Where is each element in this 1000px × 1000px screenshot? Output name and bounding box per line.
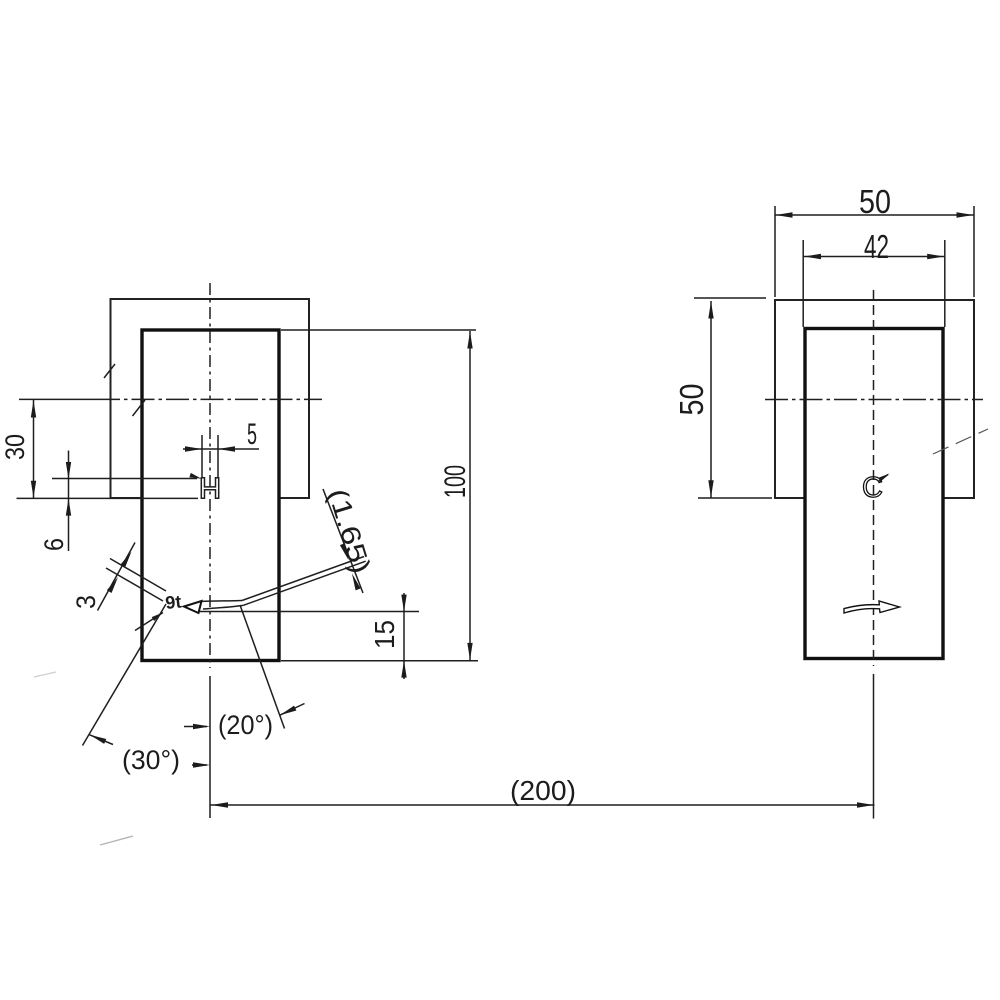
inner block rectangle thick (left view)	[142, 330, 279, 661]
hook curved tip inner edge	[203, 605, 244, 609]
svg-text:15: 15	[369, 620, 400, 649]
dimension 15 line	[403, 593, 405, 679]
dimension 100 line	[469, 331, 471, 660]
dimension 50 top line	[775, 214, 974, 216]
svg-text:9t: 9t	[164, 591, 182, 613]
faint phantom diagonal line top right	[933, 429, 988, 454]
dimension 3 edge line B	[106, 568, 163, 601]
hook bottom extension line y=611.5	[197, 611, 419, 613]
outer housing rectangle (right view)	[775, 300, 974, 498]
H profile slot feature	[201, 478, 218, 499]
dimension 30 line	[33, 400, 35, 498]
svg-text:(200): (200)	[510, 775, 576, 806]
faint pencil mark mid left	[34, 672, 56, 677]
C leader arrow	[879, 475, 888, 482]
svg-text:(20°): (20°)	[218, 710, 273, 740]
spring strip lower line	[244, 561, 366, 605]
hook open arrowhead tip	[184, 601, 202, 613]
vertical centerline (left view)	[209, 283, 211, 668]
extension line y=478.5 with leader arrow to H profile	[52, 478, 197, 480]
svg-text:42: 42	[864, 228, 889, 265]
svg-text:3: 3	[71, 595, 101, 609]
20 degree centerline arrow	[184, 726, 207, 728]
hook curved tip top edge	[201, 601, 243, 602]
30 degree reference line	[83, 604, 167, 746]
20 degree reference line	[240, 605, 285, 729]
20 degree leader arrow	[280, 704, 305, 716]
svg-text:30: 30	[0, 434, 30, 460]
svg-text:5: 5	[247, 418, 257, 451]
dimension 50 left line	[710, 301, 712, 498]
dimension 100 extension lines	[281, 329, 476, 331]
dimension (200) line	[211, 804, 875, 806]
horizontal centerline (left view)	[19, 398, 97, 400]
svg-text:50: 50	[673, 384, 710, 416]
dimension 3 line	[98, 543, 136, 611]
faint pencil mark lower left	[100, 836, 133, 845]
svg-text:C: C	[862, 472, 883, 504]
dimension 3 edge line A	[110, 559, 166, 592]
dimension 50 top extension lines	[775, 206, 974, 297]
svg-text:6: 6	[39, 538, 69, 551]
break slash on inner rect left edge	[133, 400, 146, 416]
dimension 42 line	[804, 256, 945, 258]
extension line y=498.4	[17, 497, 199, 499]
30 degree centerline arrow	[192, 764, 207, 766]
break slash on outer rect left edge	[104, 364, 115, 378]
svg-text:100: 100	[439, 465, 472, 498]
dimension 6 line	[68, 451, 70, 552]
dimension 5 extension lines	[202, 435, 218, 478]
rotation direction curved arrow	[844, 601, 900, 613]
dimension 42 extension lines	[803, 240, 945, 327]
inner block rectangle thick (right view)	[805, 329, 943, 659]
svg-text:50: 50	[859, 183, 891, 220]
outer housing rectangle (left view)	[111, 299, 310, 498]
svg-text:(30°): (30°)	[122, 745, 180, 775]
vertical centerline (right view)	[873, 290, 875, 666]
small leader arrow below hook	[135, 613, 163, 631]
spring strip upper line	[242, 557, 364, 601]
dimension 5 line	[183, 448, 259, 450]
30 degree leader arrow	[90, 735, 113, 745]
horizontal centerline (right view)	[765, 399, 983, 401]
dimension (1.65) line	[323, 489, 363, 593]
dimension 50 left extension lines	[694, 298, 772, 498]
